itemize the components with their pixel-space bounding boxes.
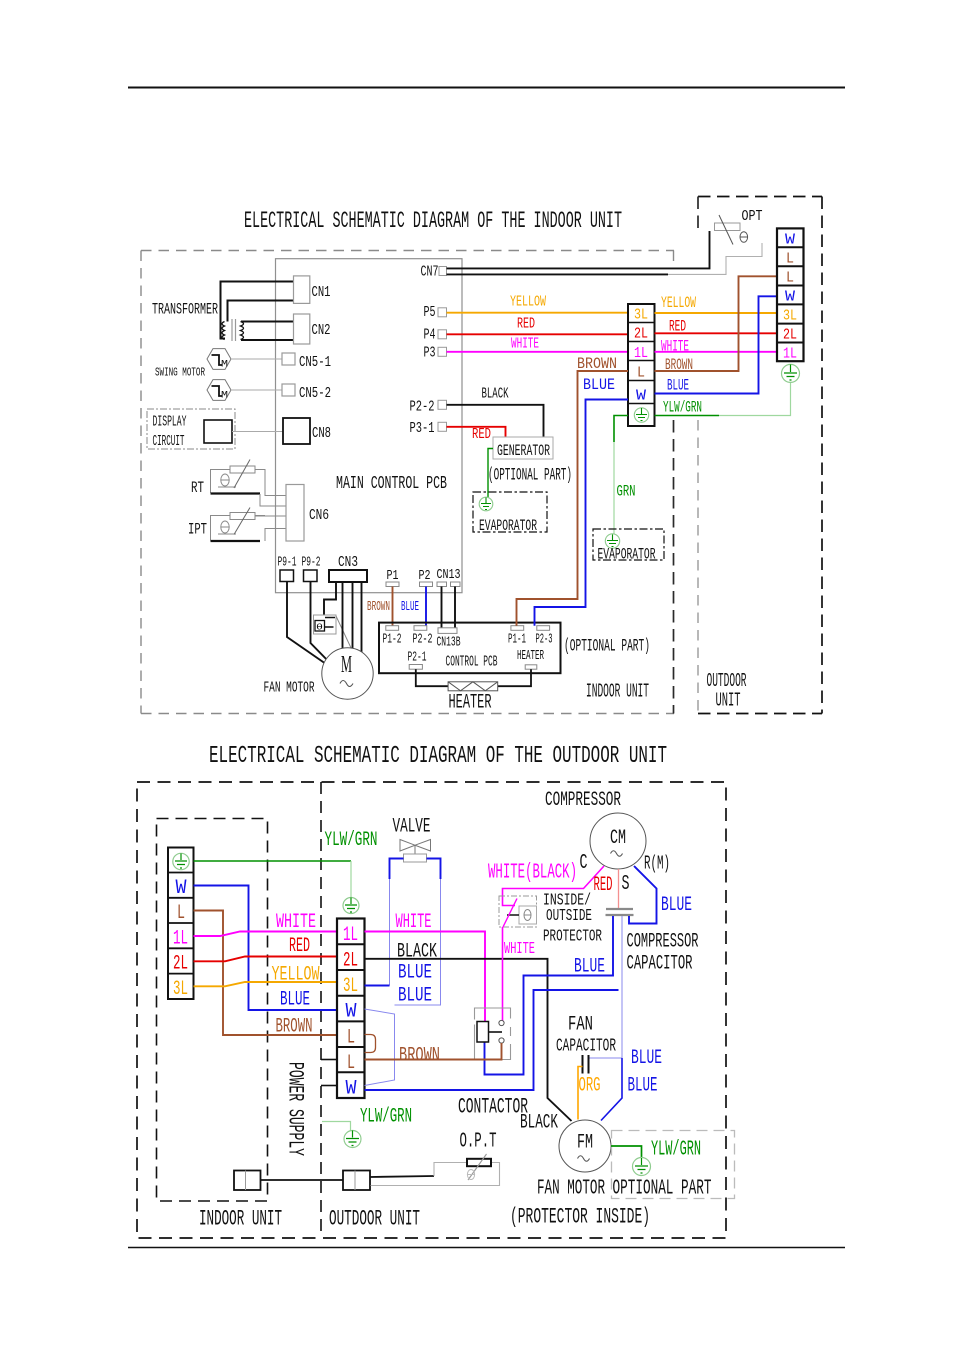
svg-text:GENERATOR: GENERATOR xyxy=(497,442,550,460)
svg-text:CN2: CN2 xyxy=(312,322,331,339)
svg-text:BLUE: BLUE xyxy=(583,376,615,394)
valve symbol xyxy=(400,840,431,863)
contactor xyxy=(475,1008,511,1060)
svg-text:(OPTIONAL PART): (OPTIONAL PART) xyxy=(564,637,650,657)
inside/outside protector xyxy=(499,896,537,927)
svg-text:SWING MOTOR: SWING MOTOR xyxy=(155,367,205,380)
svg-text:W: W xyxy=(346,1001,358,1024)
fan capacitor plates xyxy=(582,1055,584,1074)
wire CN13 pin2 to CN13B xyxy=(454,587,456,628)
svg-text:CAPACITOR: CAPACITOR xyxy=(556,1036,616,1057)
display circuit box xyxy=(147,409,235,449)
wire 2L to outdoor 2L (red) xyxy=(655,332,778,334)
wire P5 to 3L (yellow) xyxy=(447,312,629,314)
wire W to block2 W (blue) xyxy=(194,886,338,1011)
wire R(M) to capacitor (blue) xyxy=(629,866,657,924)
plug connector (indoor side) xyxy=(234,1171,261,1191)
wire heater to HEATER pin xyxy=(498,669,531,686)
svg-text:RED: RED xyxy=(517,317,535,333)
wire 3L to outdoor 3L (yellow) xyxy=(655,312,778,314)
svg-text:P3: P3 xyxy=(424,345,436,362)
svg-text:EVAPORATOR: EVAPORATOR xyxy=(598,546,656,564)
fan motor FM xyxy=(559,1120,611,1172)
svg-text:1L: 1L xyxy=(343,924,358,947)
wire gnd green left and down xyxy=(614,416,628,443)
svg-text:FAN MOTOR: FAN MOTOR xyxy=(264,680,315,697)
wire gnd green right (ylw/grn) xyxy=(194,860,352,862)
svg-text:2L: 2L xyxy=(173,953,188,976)
svg-text:BLUE: BLUE xyxy=(628,1075,658,1098)
top rule line xyxy=(128,87,845,89)
svg-text:(OPTIONAL PART): (OPTIONAL PART) xyxy=(488,466,572,486)
wire transformer primary bottom to CN1 xyxy=(221,282,294,339)
svg-text:WHITE: WHITE xyxy=(661,338,689,356)
wire W to outdoor W (blue) xyxy=(655,296,778,393)
svg-text:P1-1: P1-1 xyxy=(508,633,526,648)
svg-text:RED: RED xyxy=(472,427,491,443)
wire pale green to lower ground xyxy=(322,1122,351,1131)
evaporator box 2 xyxy=(593,529,664,560)
svg-text:W: W xyxy=(785,289,795,306)
svg-text:3L: 3L xyxy=(173,978,188,1001)
svg-text:2L: 2L xyxy=(783,327,797,344)
wire P2-2 to generator (black) xyxy=(447,405,544,437)
thermistor IPT xyxy=(188,508,265,542)
wire valve left (blue) xyxy=(390,859,404,880)
svg-text:OPT: OPT xyxy=(742,208,763,225)
svg-text:L: L xyxy=(786,251,794,268)
display circuit inner square xyxy=(204,420,232,443)
svg-text:CN6: CN6 xyxy=(309,507,329,524)
wire pale green down to evaporator 2 xyxy=(613,442,615,535)
svg-text:L: L xyxy=(177,902,185,925)
svg-text:BLUE: BLUE xyxy=(667,377,689,395)
svg-text:BROWN: BROWN xyxy=(276,1016,313,1039)
wire 1L to contactor (magenta) xyxy=(365,932,486,1022)
connector CN8 xyxy=(283,418,310,444)
svg-text:P2-3: P2-3 xyxy=(536,633,553,648)
wire CN3 pin3 xyxy=(352,582,354,649)
wire transformer primary top to CN1 xyxy=(228,301,294,322)
svg-text:COMPRESSOR: COMPRESSOR xyxy=(627,931,699,954)
wire CN3 pin1 to thermal protector xyxy=(324,582,336,615)
connector CN5-1 xyxy=(282,353,295,365)
svg-text:1L: 1L xyxy=(173,928,188,951)
wire P2 to P2-2 (blue) xyxy=(425,587,427,626)
svg-text:P2-1: P2-1 xyxy=(408,651,427,666)
svg-text:O.P.T: O.P.T xyxy=(460,1130,497,1154)
svg-text:L: L xyxy=(347,1052,355,1075)
svg-text:P2-2: P2-2 xyxy=(413,633,433,648)
wire 2L to fan motor (black) xyxy=(365,959,572,1121)
svg-text:RED: RED xyxy=(289,935,310,958)
wire 2L to block2 2L (red) xyxy=(194,957,338,962)
wire P9-2 to fan motor xyxy=(311,582,334,667)
svg-text:FAN: FAN xyxy=(568,1014,593,1037)
wire P9-1 to fan motor xyxy=(287,582,326,665)
svg-text:YLW/GRN: YLW/GRN xyxy=(325,829,378,852)
svg-text:YLW/GRN: YLW/GRN xyxy=(360,1106,412,1129)
ground (evaporator 2) xyxy=(605,534,619,548)
svg-text:W: W xyxy=(176,877,188,900)
svg-text:OUTSIDE: OUTSIDE xyxy=(546,907,592,926)
svg-text:CM: CM xyxy=(610,827,626,850)
svg-text:OPTIONAL PART: OPTIONAL PART xyxy=(613,1177,712,1201)
svg-text:BLACK: BLACK xyxy=(397,941,437,964)
control PCB box xyxy=(379,623,561,674)
wire 3L to block2 3L (yellow) xyxy=(194,982,338,986)
outdoor unit dashed border left edge (gray) xyxy=(697,197,699,233)
svg-text:INDOOR UNIT: INDOOR UNIT xyxy=(586,681,649,703)
wire L to block2 L (brown) xyxy=(194,911,338,1036)
svg-text:BROWN: BROWN xyxy=(577,355,617,373)
svg-text:P2-2: P2-2 xyxy=(410,399,435,416)
svg-text:L: L xyxy=(347,1027,355,1050)
outdoor terminal block (W L L W 3L 2L 1L) xyxy=(777,228,804,362)
svg-text:1L: 1L xyxy=(783,346,797,363)
svg-text:WHITE: WHITE xyxy=(511,337,539,353)
svg-text:RED: RED xyxy=(669,318,686,336)
ground (below outdoor block) xyxy=(782,364,800,382)
swing motor M1 xyxy=(207,349,282,371)
wire plug to plug xyxy=(261,1179,344,1181)
svg-text:BLACK: BLACK xyxy=(520,1112,558,1135)
svg-text:WHITE: WHITE xyxy=(504,940,535,959)
indoor unit dashed border right edge xyxy=(673,251,675,267)
svg-text:W: W xyxy=(785,232,795,249)
svg-text:P4: P4 xyxy=(424,327,436,344)
switch O.P.T xyxy=(460,1130,497,1181)
ground (outdoor lower) xyxy=(344,1131,361,1148)
wire stub divider to block2 L lower xyxy=(321,1059,337,1061)
wire 1L to outdoor 1L (magenta) xyxy=(655,351,778,353)
svg-text:3L: 3L xyxy=(783,308,797,325)
wire CN7 lower xyxy=(447,273,669,275)
svg-text:HEATER: HEATER xyxy=(517,649,544,664)
svg-text:CONTROL PCB: CONTROL PCB xyxy=(446,654,498,671)
wire brown from L down to P1-1 xyxy=(517,371,629,626)
wire protector to contactor (magenta) xyxy=(502,927,504,1021)
wire 3L to valve (blue) xyxy=(365,985,390,987)
svg-text:CN13B: CN13B xyxy=(437,636,461,651)
wire P2-1 to heater xyxy=(416,669,448,686)
svg-text:M: M xyxy=(221,360,228,371)
outdoor unit dashed border (indoor diagram) xyxy=(698,197,822,714)
wire display to CN8 xyxy=(232,431,283,433)
svg-text:CN5-1: CN5-1 xyxy=(299,354,331,371)
wire P3-1 to generator (red) xyxy=(447,427,506,437)
svg-text:BLUE: BLUE xyxy=(398,985,432,1008)
bottom rule line xyxy=(128,1247,845,1249)
wire RT to CN6 xyxy=(260,480,286,506)
svg-text:BLUE: BLUE xyxy=(631,1047,662,1070)
svg-text:M: M xyxy=(341,652,352,678)
connector CN6 xyxy=(286,485,304,542)
svg-text:3L: 3L xyxy=(343,975,358,998)
svg-text:CN5-2: CN5-2 xyxy=(299,385,331,402)
connector P1-1 xyxy=(511,626,524,631)
svg-text:WHITE: WHITE xyxy=(276,911,316,934)
svg-text:θ: θ xyxy=(316,623,323,633)
svg-text:YELLOW: YELLOW xyxy=(661,294,696,312)
svg-text:2L: 2L xyxy=(634,326,648,343)
svg-text:S: S xyxy=(622,873,630,896)
transformer T1 xyxy=(222,319,244,341)
dashed divider indoor/outdoor xyxy=(320,782,322,1238)
thermistor RT xyxy=(191,460,265,498)
svg-text:W: W xyxy=(346,1078,358,1101)
svg-text:YLW/GRN: YLW/GRN xyxy=(651,1138,701,1162)
connector P2-3 xyxy=(537,626,550,631)
svg-text:BROWN: BROWN xyxy=(665,356,693,374)
wire transformer secondary top to CN2 xyxy=(241,321,294,323)
svg-text:POWER SUPPLY: POWER SUPPLY xyxy=(283,1062,308,1156)
svg-text:P9-1: P9-1 xyxy=(278,556,297,571)
wire CN3 pin4 xyxy=(361,582,363,652)
wire P3 to 1L (magenta) xyxy=(447,351,629,353)
svg-text:BLUE: BLUE xyxy=(661,894,692,917)
wire capacitor to contactor (blue) xyxy=(485,916,614,1075)
swing motor M2 xyxy=(207,380,282,402)
svg-text:INDOOR UNIT: INDOOR UNIT xyxy=(199,1207,282,1232)
wire plug to OPT xyxy=(370,1176,434,1177)
generator box xyxy=(493,437,553,459)
wire valve right pale blue down to W xyxy=(395,879,441,1005)
connector CN13B xyxy=(438,628,457,634)
ground (indoor block cell) xyxy=(634,408,648,422)
outdoor terminal block2 (1L 2L 3L W L L W) xyxy=(337,919,365,1101)
plug connector (outdoor side) xyxy=(343,1171,370,1191)
wire C terminal white/black (magenta) xyxy=(503,866,605,906)
svg-text:P3-1: P3-1 xyxy=(410,420,435,437)
wire CN7 upper to OPT xyxy=(447,231,710,268)
svg-text:L: L xyxy=(637,365,645,382)
wire blue from W down to P2-3 xyxy=(535,400,629,626)
svg-text:OUTDOOR UNIT: OUTDOOR UNIT xyxy=(329,1207,420,1232)
indoor terminal block (3L 2L 1L L W gnd) xyxy=(628,304,655,426)
svg-text:ELECTRICAL SCHEMATIC DIAGRAM O: ELECTRICAL SCHEMATIC DIAGRAM OF THE INDO… xyxy=(244,208,622,235)
svg-text:BROWN: BROWN xyxy=(399,1045,440,1068)
wire generator to evaporator ground (green) xyxy=(488,449,493,498)
compressor CM xyxy=(590,813,646,869)
svg-text:BLUE: BLUE xyxy=(401,600,419,615)
svg-text:1L: 1L xyxy=(634,345,648,362)
wire contactor to block2 L (brown) xyxy=(365,1043,502,1060)
wire transformer secondary bottom to CN2 xyxy=(241,339,294,341)
compressor capacitor plates xyxy=(606,908,633,910)
svg-text:GRN: GRN xyxy=(617,483,636,501)
wire gnd to right (green) xyxy=(655,415,720,417)
svg-text:P1-2: P1-2 xyxy=(383,633,402,648)
connector CN1 xyxy=(294,276,310,304)
wire 1L to block2 1L (magenta) xyxy=(194,932,338,937)
svg-text:YLW/GRN: YLW/GRN xyxy=(663,399,702,417)
svg-text:EVAPORATOR: EVAPORATOR xyxy=(479,517,537,535)
wire IPT to CN6 xyxy=(255,516,286,541)
jumper W-W (pale blue) xyxy=(365,1009,395,1086)
wire gnd pale green to outdoor ground xyxy=(719,383,791,416)
connector CN2 xyxy=(294,314,310,344)
svg-text:YELLOW: YELLOW xyxy=(272,964,320,987)
svg-text:TRANSFORMER: TRANSFORMER xyxy=(152,301,218,319)
svg-text:2L: 2L xyxy=(343,950,358,973)
svg-text:IPT: IPT xyxy=(188,521,207,539)
svg-text:CN8: CN8 xyxy=(312,425,331,442)
main control PCB box xyxy=(276,259,463,593)
svg-text:CIRCUIT: CIRCUIT xyxy=(153,433,185,450)
wire valve left pale blue down to 3L xyxy=(389,879,391,986)
wire P4 to 2L (red) xyxy=(447,333,629,335)
ground (optional part) xyxy=(633,1158,651,1176)
svg-text:P5: P5 xyxy=(424,304,436,321)
svg-text:M: M xyxy=(221,391,228,402)
svg-text:CN7: CN7 xyxy=(421,264,439,281)
svg-text:PROTECTOR: PROTECTOR xyxy=(543,928,602,947)
svg-text:(PROTECTOR INSIDE): (PROTECTOR INSIDE) xyxy=(510,1205,650,1230)
svg-text:HEATER: HEATER xyxy=(449,692,492,715)
wire CN7 lower gray continuation to OPT xyxy=(668,243,762,274)
evaporator box 1 xyxy=(473,492,547,532)
svg-text:FM: FM xyxy=(577,1132,593,1155)
svg-text:UNIT: UNIT xyxy=(716,690,741,712)
svg-text:W: W xyxy=(636,388,646,405)
wire S to capacitor (pale red) xyxy=(618,869,620,908)
OPT return wire (gray) xyxy=(371,1163,500,1186)
jumper L-L (brown) xyxy=(365,1035,376,1053)
svg-text:CN13: CN13 xyxy=(437,568,461,583)
wire W lower to compressor capacitor (blue) xyxy=(365,990,619,1090)
thermal protector (fan motor) xyxy=(314,615,353,650)
wire pale green to ground symbol xyxy=(350,861,352,898)
svg-text:WHITE(BLACK): WHITE(BLACK) xyxy=(488,862,577,885)
heater element xyxy=(448,682,498,691)
svg-text:BLUE: BLUE xyxy=(398,962,432,985)
svg-text:CN3: CN3 xyxy=(338,554,358,571)
fan motor M xyxy=(322,648,373,699)
svg-text:ELECTRICAL SCHEMATIC DIAGRAM O: ELECTRICAL SCHEMATIC DIAGRAM OF THE OUTD… xyxy=(209,743,667,770)
indoor unit inner dashed border xyxy=(157,819,268,1202)
wire stub divider to block2 W lower xyxy=(321,1085,337,1087)
svg-text:C: C xyxy=(580,852,588,875)
svg-text:RT: RT xyxy=(191,479,204,497)
wire CN13 pin1 to CN13B xyxy=(441,587,443,628)
svg-text:DISPLAY: DISPLAY xyxy=(153,414,187,431)
wire fan capacitor to fan motor (blue) xyxy=(601,1058,622,1121)
svg-text:CONTACTOR: CONTACTOR xyxy=(458,1095,528,1120)
svg-text:R(M): R(M) xyxy=(644,853,670,875)
wire P1 to P1-2 (brown) xyxy=(392,587,394,626)
svg-text:L: L xyxy=(786,270,794,287)
svg-text:FAN MOTOR: FAN MOTOR xyxy=(537,1177,605,1201)
connector P2-2 (control pcb) xyxy=(414,626,427,631)
svg-text:P9-2: P9-2 xyxy=(302,556,321,571)
svg-text:MAIN CONTROL PCB: MAIN CONTROL PCB xyxy=(336,474,447,494)
wire capacitor pale blue down to fan capacitor xyxy=(590,916,623,1058)
wire CN3 pin2 xyxy=(342,582,344,650)
svg-text:BLUE: BLUE xyxy=(280,989,310,1012)
svg-text:RED: RED xyxy=(594,874,613,897)
wire valve right (blue) xyxy=(427,859,441,880)
ground (power block cell) xyxy=(173,853,189,869)
svg-text:COMPRESSOR: COMPRESSOR xyxy=(545,789,621,812)
optional part dashed box xyxy=(612,1131,735,1199)
ground (outdoor mid) xyxy=(343,898,359,914)
connector CN5-2 xyxy=(282,384,295,396)
indoor unit dashed border xyxy=(141,251,674,714)
svg-text:CAPACITOR: CAPACITOR xyxy=(627,953,693,976)
svg-text:CN1: CN1 xyxy=(312,284,331,301)
wire fan capacitor left orange to FM xyxy=(578,1067,583,1120)
svg-text:BROWN: BROWN xyxy=(367,600,390,615)
wire FM to ground (green) xyxy=(611,1146,642,1158)
power terminal block (gnd W L 1L 2L 3L) xyxy=(168,848,194,1002)
ground (evaporator 1) xyxy=(479,497,493,511)
connector P1-2 xyxy=(386,626,399,631)
svg-text:ORG: ORG xyxy=(579,1075,601,1098)
switch OPT xyxy=(715,208,763,245)
svg-text:YELLOW: YELLOW xyxy=(510,295,546,311)
wire L to outdoor L (brown) xyxy=(655,276,778,371)
svg-text:BLACK: BLACK xyxy=(482,386,509,403)
svg-text:3L: 3L xyxy=(634,307,648,324)
svg-text:BLUE: BLUE xyxy=(574,956,605,979)
outdoor diagram outer dashed border xyxy=(137,782,726,1238)
svg-text:VALVE: VALVE xyxy=(393,816,431,839)
